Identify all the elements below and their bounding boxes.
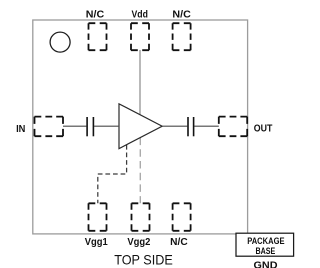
svg-text:Vgg1: Vgg1 xyxy=(85,237,108,248)
svg-text:IN: IN xyxy=(16,124,25,135)
svg-text:N/C: N/C xyxy=(170,237,188,248)
svg-text:GND: GND xyxy=(254,260,278,268)
svg-text:PACKAGE: PACKAGE xyxy=(247,236,285,246)
svg-text:Vgg2: Vgg2 xyxy=(127,237,150,248)
svg-text:N/C: N/C xyxy=(86,9,104,20)
svg-text:TOP SIDE: TOP SIDE xyxy=(114,253,173,268)
svg-text:OUT: OUT xyxy=(254,124,273,135)
svg-text:BASE: BASE xyxy=(256,246,276,256)
svg-text:N/C: N/C xyxy=(172,9,190,20)
svg-text:Vdd: Vdd xyxy=(132,9,148,20)
